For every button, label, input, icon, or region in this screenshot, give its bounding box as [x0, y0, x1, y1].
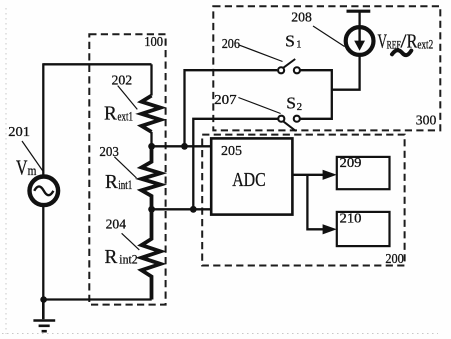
dashed box 100 [89, 34, 165, 304]
arrow into 209 [323, 170, 337, 180]
svg-text:ADC: ADC [232, 169, 266, 191]
svg-text:100: 100 [144, 35, 163, 50]
svg-text:V: V [16, 155, 28, 179]
wire node A to ADC [152, 145, 212, 147]
svg-text:210: 210 [340, 212, 362, 227]
box 209 [337, 157, 390, 189]
wire up from A2 to S1 line [185, 70, 278, 146]
wire top horizontal [43, 63, 151, 65]
node dot A2 [181, 143, 188, 150]
svg-text:S: S [286, 93, 296, 112]
svg-text:207: 207 [214, 93, 237, 108]
resistor R_int2 204 [142, 209, 161, 299]
wire ADC output [292, 174, 324, 176]
box 210 [337, 212, 390, 246]
resistor R_ext1 202 [142, 96, 161, 132]
wire resistor chain top lead [150, 64, 152, 95]
leader 203 [114, 157, 136, 178]
svg-text:S: S [285, 32, 295, 51]
svg-text:ext2: ext2 [417, 37, 433, 51]
ground node dot [40, 296, 47, 303]
svg-text:300: 300 [416, 114, 437, 129]
current source circle 208 [346, 27, 374, 55]
svg-text:204: 204 [106, 218, 126, 233]
tilde under V_REF [392, 50, 411, 55]
svg-text:202: 202 [112, 74, 133, 89]
switch S1 206 [278, 59, 300, 73]
svg-text:2: 2 [297, 101, 303, 113]
wire left vertical upper [42, 63, 44, 175]
leader 202 [118, 86, 138, 110]
wire current source bottom [332, 56, 360, 90]
svg-text:200: 200 [385, 252, 403, 267]
wire up from B2 to S2 line [193, 119, 277, 210]
svg-text:R: R [104, 103, 117, 125]
svg-text:201: 201 [8, 125, 30, 140]
leader 208 [313, 26, 345, 47]
svg-text:1: 1 [296, 39, 301, 50]
ADC box U205 [211, 138, 292, 214]
current source 208 rail bar [347, 10, 371, 13]
leader 207 [238, 98, 280, 114]
svg-text:205: 205 [221, 144, 242, 159]
ground [33, 300, 55, 332]
svg-text:206: 206 [222, 37, 240, 52]
leader 206 [240, 45, 283, 61]
switch S2 207 [278, 116, 300, 131]
svg-text:int1: int1 [118, 177, 132, 192]
dashed box 200 [202, 135, 404, 266]
leader 201 [22, 141, 43, 172]
node dot A [148, 143, 155, 150]
svg-text:R: R [105, 246, 118, 268]
svg-text:R: R [105, 171, 118, 193]
wire S1 out to right vertical [300, 70, 332, 119]
wire node B to ADC [152, 208, 212, 210]
svg-text:209: 209 [340, 156, 362, 171]
node dot B2 [190, 206, 197, 213]
svg-text:int2: int2 [119, 252, 137, 267]
wire left vertical lower [42, 207, 44, 300]
faint page border bottom [2, 333, 438, 335]
wire lead [150, 132, 152, 147]
svg-text:208: 208 [291, 10, 312, 25]
faint page border left [5, 8, 7, 334]
current source arrow [358, 28, 360, 43]
resistor R_int1 203 [142, 146, 161, 209]
svg-text:ext1: ext1 [118, 109, 134, 124]
arrow into 210 [323, 224, 337, 234]
node dot B [148, 206, 155, 213]
dashed box 300 [213, 6, 440, 130]
current source stem top [358, 11, 360, 28]
voltage source V_m 201 [30, 177, 59, 206]
leader 204 [122, 233, 140, 250]
wire branch down [307, 175, 324, 230]
wire bottom horizontal [43, 298, 151, 300]
svg-text:m: m [28, 163, 37, 178]
